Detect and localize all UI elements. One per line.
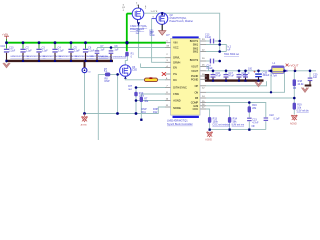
svg-text:AGND: AGND <box>173 100 180 103</box>
svg-text:47uF: 47uF <box>242 75 248 78</box>
svg-text:VIN: VIN <box>173 42 177 45</box>
svg-text:AGND: AGND <box>290 122 297 125</box>
svg-text:FB: FB <box>293 87 296 90</box>
svg-text:PowerTrench, MosFet: PowerTrench, MosFet <box>170 20 194 23</box>
svg-text:C: C <box>248 72 250 75</box>
svg-text:net: net <box>88 71 91 74</box>
svg-text:Synch Buck Controller: Synch Buck Controller <box>167 122 193 126</box>
svg-text:NF: NF <box>252 125 256 128</box>
svg-text:R12: R12 <box>153 111 158 114</box>
svg-text:47uF: 47uF <box>216 75 222 78</box>
svg-text:330uF: 330uF <box>263 74 270 77</box>
svg-text:0.1uF: 0.1uF <box>205 36 212 39</box>
svg-text:ON: ON <box>194 91 198 94</box>
svg-text:SW1 SW2 net: SW1 SW2 net <box>224 53 239 56</box>
svg-text:DRVL: DRVL <box>173 57 180 60</box>
svg-text:EN: EN <box>173 67 177 70</box>
svg-text:1uF: 1uF <box>114 48 119 51</box>
svg-text:+VIN: +VIN <box>2 32 8 36</box>
svg-text:net: net <box>136 32 140 35</box>
svg-text:DRVH: DRVH <box>173 61 180 64</box>
svg-text:COC set resistor: COC set resistor <box>212 123 230 126</box>
svg-text:2.2uF: 2.2uF <box>42 50 49 53</box>
svg-text:MODE: MODE <box>173 107 181 110</box>
svg-text:CSD: CSD <box>132 69 137 72</box>
svg-text:U?: U? <box>166 33 170 37</box>
svg-text:24.9k: 24.9k <box>298 83 305 86</box>
svg-text:2.2uF: 2.2uF <box>26 50 33 53</box>
svg-text:BOOT2: BOOT2 <box>190 59 199 62</box>
svg-text:DITH/SYNC: DITH/SYNC <box>173 87 187 90</box>
svg-text:PG: PG <box>173 73 177 76</box>
svg-text:VOUT: VOUT <box>191 66 198 69</box>
svg-text:DNP: DNP <box>105 80 110 83</box>
svg-text:AGND: AGND <box>205 139 212 142</box>
svg-text:1uF: 1uF <box>100 48 105 51</box>
svg-text:0.1uF: 0.1uF <box>274 117 281 120</box>
svg-text:1 4 7 8: 1 4 7 8 <box>151 11 158 13</box>
svg-text:SW2: SW2 <box>193 51 199 54</box>
svg-text:VCC: VCC <box>173 47 178 50</box>
svg-text:SW1: SW1 <box>193 44 199 47</box>
svg-text:4.7uH: 4.7uH <box>271 75 278 78</box>
svg-text:FSW: FSW <box>173 93 179 96</box>
svg-text:2.2uF: 2.2uF <box>58 50 65 53</box>
svg-text:AGND: AGND <box>81 124 88 127</box>
svg-text:+VOUT: +VOUT <box>289 63 299 67</box>
svg-text:47uF: 47uF <box>229 75 235 78</box>
svg-text:100: 100 <box>248 68 253 71</box>
svg-text:GRM188R72A: GRM188R72A <box>99 55 113 58</box>
svg-text:PGND: PGND <box>191 78 198 81</box>
svg-text:2.2uF: 2.2uF <box>9 50 16 53</box>
svg-text:ILIM set res: ILIM set res <box>232 123 245 126</box>
svg-text:0.5V ref div: 0.5V ref div <box>297 110 310 113</box>
svg-text:net: net <box>149 32 153 35</box>
svg-text:COC: COC <box>193 108 199 111</box>
svg-text:VOUT: VOUT <box>191 70 198 73</box>
svg-text:GRM188R72A: GRM188R72A <box>113 55 127 58</box>
svg-text:DC: DC <box>173 79 177 82</box>
svg-text:OP: OP <box>195 85 199 88</box>
svg-text:0.1uF: 0.1uF <box>207 67 214 70</box>
svg-text:2.2uF: 2.2uF <box>74 50 81 53</box>
svg-text:R11: R11 <box>142 111 147 114</box>
svg-text:net: net <box>128 88 132 91</box>
svg-text:FB: FB <box>195 97 199 100</box>
svg-text:C1D: C1D <box>0 45 5 48</box>
svg-text:2.2uF: 2.2uF <box>88 50 95 53</box>
svg-text:1uF: 1uF <box>313 76 318 79</box>
